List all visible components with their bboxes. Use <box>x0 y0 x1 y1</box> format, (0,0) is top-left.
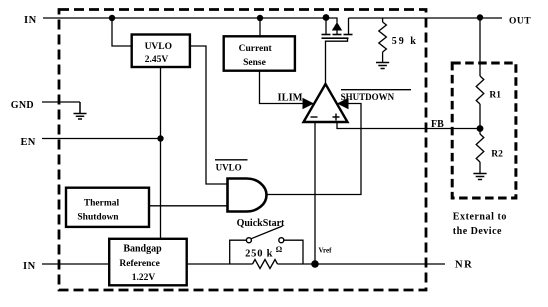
wire Vref to NR pin <box>315 263 445 265</box>
resistor R1 <box>476 76 484 104</box>
svg-text:FB: FB <box>431 119 444 130</box>
wire IN to current sense <box>259 18 261 36</box>
svg-text:IN: IN <box>24 15 37 26</box>
wire resistor to Vref node <box>278 263 316 265</box>
svg-text:the Device: the Device <box>453 226 502 237</box>
wire thermal shutdown to AND bottom input <box>149 205 228 207</box>
switch actuator <box>251 226 282 239</box>
body arrow <box>332 22 342 31</box>
svg-text:IN: IN <box>23 261 36 272</box>
svg-text:UVLO: UVLO <box>145 42 172 52</box>
svg-text:2.45V: 2.45V <box>145 55 169 65</box>
svg-text:R2: R2 <box>491 150 503 160</box>
svg-text:Sense: Sense <box>243 58 266 68</box>
wire UVLO bottom to bandgap (EN rail) <box>160 67 162 239</box>
svg-text:Bandgap: Bandgap <box>123 243 162 254</box>
node dot OUT junction <box>477 14 483 20</box>
svg-text:Reference: Reference <box>119 259 159 269</box>
block Thermal Shutdown <box>66 188 149 227</box>
wire bandgap output <box>187 263 253 265</box>
wire EN <box>42 138 161 140</box>
switch left wire <box>230 240 247 264</box>
svg-text:59 k: 59 k <box>392 36 418 47</box>
node dot EN junction <box>157 135 163 141</box>
svg-text:Vref: Vref <box>319 247 333 255</box>
svg-text:GND: GND <box>11 100 34 111</box>
gate bar <box>322 37 349 39</box>
ground symbol (R2) <box>473 174 486 180</box>
wire rail drain-to-OUT <box>349 17 503 19</box>
plus input mark <box>333 114 340 121</box>
wire IN to UVLO input <box>112 18 132 46</box>
resistor R2 <box>476 134 484 162</box>
PMOS pass transistor <box>322 18 353 84</box>
node dot FB divider <box>477 125 484 132</box>
block Current Sense <box>224 36 295 70</box>
svg-text:NR: NR <box>455 260 473 271</box>
svg-text:1.22V: 1.22V <box>132 273 156 283</box>
source stub <box>325 18 327 34</box>
wire GND <box>42 101 80 103</box>
svg-text:Shutdown: Shutdown <box>77 212 119 222</box>
body branch <box>326 18 337 23</box>
wire amp plus input to FB node <box>337 122 480 129</box>
svg-text:UVLO: UVLO <box>216 163 242 173</box>
drain stub <box>348 18 350 34</box>
wire R1 to FB node <box>479 104 481 134</box>
svg-text:Current: Current <box>239 44 273 54</box>
wire R2 to ground <box>479 162 481 173</box>
node dot Vref <box>311 260 319 268</box>
svg-text:OUT: OUT <box>509 17 531 27</box>
wire UVLO output to AND gate top input <box>190 46 228 184</box>
resistor 250 k <box>253 260 278 269</box>
resistor 59 k <box>379 18 387 62</box>
gate wire to amp output <box>326 39 348 84</box>
wire IN rail top <box>43 17 326 19</box>
svg-text:External to: External to <box>453 212 507 223</box>
svg-text:Ω: Ω <box>276 245 283 254</box>
node dot PMOS source junction <box>323 14 330 21</box>
svg-text:R1: R1 <box>489 91 501 101</box>
node dot IN/current-sense junction <box>257 15 263 21</box>
main device dashed border <box>59 10 426 291</box>
switch left contact <box>246 238 251 243</box>
wire OUT down to divider <box>479 18 481 77</box>
ground symbol (GND pin) <box>74 102 87 119</box>
block Bandgap Reference 1.22V <box>109 239 187 285</box>
external dashed box <box>452 63 516 198</box>
svg-text:EN: EN <box>21 137 36 148</box>
arrowhead SHUTDOWN <box>337 98 349 109</box>
op-amp error amplifier <box>304 84 348 122</box>
svg-text:250 k: 250 k <box>245 249 273 260</box>
arrowhead ILIM <box>303 98 315 109</box>
svg-text:ILIM: ILIM <box>278 93 303 104</box>
wire current sense to ILIM input <box>260 71 305 104</box>
wire amp minus input to Vref node <box>314 122 316 264</box>
svg-text:Thermal: Thermal <box>84 199 120 209</box>
node dot IN/UVLO junction <box>109 15 115 21</box>
svg-text:SHUTDOWN: SHUTDOWN <box>341 92 395 102</box>
minus input mark <box>311 116 318 118</box>
contact bars <box>322 34 331 36</box>
block UVLO 2.45V <box>132 35 190 68</box>
switch right wire <box>284 240 303 264</box>
AND gate <box>228 179 267 212</box>
switch right contact <box>279 238 284 243</box>
ground symbol (59 k) <box>376 63 389 69</box>
wire SHUTDOWN input from AND gate <box>267 104 362 195</box>
wire IN bottom to bandgap <box>42 263 109 265</box>
